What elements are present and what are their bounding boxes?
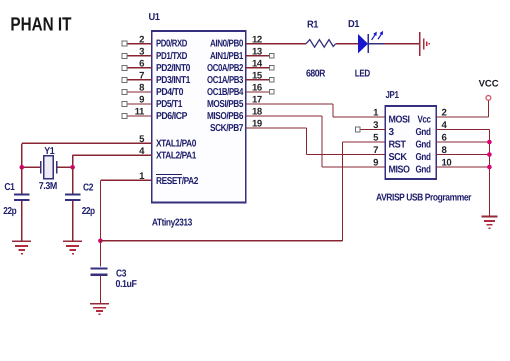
unconnected square pin 7 bbox=[122, 77, 127, 82]
wire R1 to D1 bbox=[336, 43, 358, 45]
wire C3 top lead bbox=[99, 241, 101, 267]
svg-text:6: 6 bbox=[139, 58, 144, 69]
wire pin 14 stub bbox=[246, 67, 269, 69]
wire D1 to ground bbox=[385, 43, 421, 45]
svg-text:0.1uF: 0.1uF bbox=[116, 279, 137, 290]
unconnected square pin 11 bbox=[122, 114, 127, 119]
svg-text:Gnd: Gnd bbox=[416, 140, 431, 151]
svg-text:JP1: JP1 bbox=[386, 90, 400, 101]
wire pin 3 stub bbox=[127, 55, 152, 57]
ground C1 bar 4 bbox=[21, 253, 23, 255]
wire ground rail vertical bbox=[488, 130, 490, 217]
wire XTAL1 vertical drop bbox=[21, 143, 23, 167]
svg-text:7: 7 bbox=[139, 71, 144, 82]
wire JP1 pin 8 bbox=[436, 154, 489, 156]
junction node pin 6 rail bbox=[487, 140, 492, 145]
svg-text:MISO/PB6: MISO/PB6 bbox=[207, 111, 244, 122]
unconnected square pin 14 bbox=[269, 65, 274, 70]
wire pin 17 vertical drop bbox=[332, 104, 334, 117]
ground C3 bar 1 bbox=[90, 303, 109, 305]
LED arrow 1 shaft bbox=[372, 33, 376, 40]
wire pin 15 stub bbox=[246, 79, 269, 81]
wire JP1 pin 2 to VCC bbox=[436, 116, 488, 118]
unconnected square pin 2 bbox=[122, 41, 127, 46]
wire pin 1 RESET horizontal bbox=[100, 179, 151, 181]
LED arrow 1 head bbox=[373, 32, 377, 36]
svg-text:22p: 22p bbox=[3, 206, 16, 217]
svg-text:C2: C2 bbox=[83, 183, 94, 194]
svg-text:OC1A/PB3: OC1A/PB3 bbox=[207, 75, 244, 86]
capacitor C1 plate bottom bbox=[14, 199, 29, 201]
VCC terminal circle bbox=[486, 96, 491, 101]
svg-text:Vcc: Vcc bbox=[418, 115, 432, 126]
svg-text:Gnd: Gnd bbox=[416, 152, 431, 163]
wire pin 12 to R1 bbox=[246, 43, 306, 45]
capacitor C2 plate bottom bbox=[65, 199, 81, 201]
svg-text:XTAL1/PA0: XTAL1/PA0 bbox=[156, 138, 197, 149]
svg-text:XTAL2/PA1: XTAL2/PA1 bbox=[156, 150, 197, 161]
capacitor C2 plate top bbox=[65, 193, 81, 195]
ground (LED, horizontal) bar 3 bbox=[426, 42, 428, 47]
unconnected square pin 9 bbox=[122, 101, 127, 106]
ground C1 bar 1 bbox=[12, 240, 31, 242]
svg-text:AIN1/PB1: AIN1/PB1 bbox=[210, 51, 244, 62]
svg-text:Gnd: Gnd bbox=[416, 127, 431, 138]
wire XTAL2 vertical drop bbox=[72, 155, 74, 167]
svg-text:22p: 22p bbox=[82, 206, 95, 217]
ground C3 bar 3 bbox=[96, 310, 103, 312]
svg-text:LED: LED bbox=[355, 68, 370, 79]
wire JP1 pin 9 bbox=[322, 166, 385, 168]
ground C2 bar 4 bbox=[72, 253, 74, 255]
svg-text:15: 15 bbox=[252, 71, 263, 82]
svg-text:2: 2 bbox=[139, 34, 144, 45]
svg-text:AIN0/PB0: AIN0/PB0 bbox=[210, 39, 244, 50]
LED D1 pin segment bbox=[368, 43, 384, 45]
svg-text:U1: U1 bbox=[149, 12, 161, 23]
capacitor C3 plate top bbox=[91, 268, 108, 270]
ground C1 bar 3 bbox=[18, 249, 25, 251]
wire pin 19 horizontal bbox=[246, 127, 307, 129]
svg-text:SCK: SCK bbox=[389, 152, 408, 163]
svg-text:PD3/INT1: PD3/INT1 bbox=[156, 75, 191, 86]
unconnected square pin 8 bbox=[122, 89, 127, 94]
svg-text:9: 9 bbox=[373, 158, 378, 169]
wire JP1 pin 6 bbox=[436, 141, 489, 143]
ground C1 bar 2 bbox=[15, 245, 28, 247]
wire pin 18 vertical drop bbox=[321, 116, 323, 167]
svg-text:ATtiny2313: ATtiny2313 bbox=[152, 218, 193, 229]
wire C1 top lead bbox=[21, 167, 23, 194]
ground (LED, horizontal) bar 2 bbox=[423, 38, 425, 49]
wire pin 13 stub bbox=[246, 55, 269, 57]
svg-text:3: 3 bbox=[373, 120, 378, 131]
svg-text:3: 3 bbox=[139, 46, 144, 57]
crystal Y1 left plate bbox=[40, 161, 42, 173]
ground C2 bar 1 bbox=[63, 240, 82, 242]
svg-text:AVRISP USB Programmer: AVRISP USB Programmer bbox=[376, 192, 472, 203]
wire JP1 pin 5 bbox=[343, 141, 386, 143]
svg-text:PD2/INT0: PD2/INT0 bbox=[156, 63, 191, 74]
unconnected square pin 16 bbox=[269, 89, 274, 94]
unconnected square pin 13 bbox=[269, 53, 274, 58]
svg-text:RST: RST bbox=[389, 140, 406, 151]
unconnected square pin 3 bbox=[122, 53, 127, 58]
svg-text:MOSI: MOSI bbox=[389, 115, 411, 126]
svg-text:OC0A/PB2: OC0A/PB2 bbox=[207, 63, 244, 74]
wire pin 4 XTAL2 horizontal bbox=[73, 154, 152, 156]
unconnected square pin 6 bbox=[122, 65, 127, 70]
wire pin 18 horizontal bbox=[246, 115, 322, 117]
wire JP1 pin 7 bbox=[307, 154, 386, 156]
junction node RESET/C3 bbox=[98, 239, 103, 244]
wire RESET vertical rise to JP1 bbox=[342, 142, 344, 241]
wire pin 9 stub bbox=[127, 103, 152, 105]
ground rail bar 3 bbox=[486, 224, 492, 226]
wire pin 2 stub bbox=[127, 43, 152, 45]
svg-text:7: 7 bbox=[373, 145, 378, 156]
wire pin 11 stub bbox=[127, 115, 152, 117]
svg-text:MISO: MISO bbox=[389, 165, 411, 176]
svg-text:11: 11 bbox=[135, 107, 145, 118]
svg-text:MOSI/PB5: MOSI/PB5 bbox=[207, 99, 244, 110]
connector JP1 body bbox=[385, 106, 436, 179]
RESET overline bbox=[156, 174, 182, 176]
svg-text:PD4/T0: PD4/T0 bbox=[156, 87, 184, 98]
capacitor C3 plate bottom bbox=[91, 274, 108, 276]
wire C2 bottom lead bbox=[72, 201, 74, 241]
ground C3 bar 2 bbox=[93, 307, 106, 309]
ground rail bar 4 bbox=[488, 227, 490, 229]
ground rail bar 2 bbox=[484, 220, 495, 222]
svg-text:VCC: VCC bbox=[479, 79, 499, 90]
wire pin 8 stub bbox=[127, 91, 152, 93]
svg-text:C1: C1 bbox=[4, 182, 15, 193]
svg-text:Gnd: Gnd bbox=[416, 165, 431, 176]
svg-text:PD1/TXD: PD1/TXD bbox=[156, 51, 187, 62]
ground C2 bar 2 bbox=[66, 245, 79, 247]
svg-text:PD0/RXD: PD0/RXD bbox=[156, 39, 187, 50]
svg-text:OC1B/PB4: OC1B/PB4 bbox=[207, 87, 244, 98]
wire pin 5 XTAL1 horizontal bbox=[22, 142, 152, 144]
svg-text:13: 13 bbox=[252, 46, 262, 57]
svg-text:680R: 680R bbox=[306, 68, 326, 79]
LED arrow 2 head bbox=[380, 31, 384, 35]
crystal Y1 right plate bbox=[56, 161, 58, 173]
svg-text:9: 9 bbox=[139, 95, 144, 106]
junction node pin 8 rail bbox=[487, 152, 492, 157]
svg-text:7.3M: 7.3M bbox=[39, 181, 57, 192]
crystal Y1 body bbox=[44, 156, 53, 179]
ground (LED, horizontal) bar 1 bbox=[419, 32, 421, 56]
wire pin 17 horizontal bbox=[246, 103, 333, 105]
capacitor C1 plate top bbox=[14, 193, 29, 195]
ground rail bar 1 bbox=[481, 216, 497, 218]
svg-text:PHAN IT: PHAN IT bbox=[10, 14, 71, 35]
wire JP1 pin 1 bbox=[333, 116, 385, 118]
ground (LED, horizontal) bar 4 bbox=[428, 43, 430, 45]
wire C1 bottom lead bbox=[21, 201, 23, 241]
junction node pin 10 rail bbox=[487, 165, 492, 170]
wire pin 7 stub bbox=[127, 79, 152, 81]
svg-text:PD5/T1: PD5/T1 bbox=[156, 99, 183, 110]
wire crystal left lead bbox=[22, 166, 41, 168]
wire RESET vertical drop bbox=[99, 180, 101, 241]
svg-text:D1: D1 bbox=[348, 19, 360, 30]
wire pin 6 stub bbox=[127, 67, 152, 69]
LED arrow 2 shaft bbox=[378, 33, 382, 40]
LED D1 triangle bbox=[359, 35, 368, 52]
wire pin 16 stub bbox=[246, 91, 269, 93]
svg-text:PD6/ICP: PD6/ICP bbox=[156, 111, 188, 122]
LED D1 cathode bar bbox=[367, 34, 369, 53]
wire JP1 pin 3 stub bbox=[360, 129, 385, 131]
wire JP1 pin 4 bbox=[436, 129, 489, 131]
unconnected square pin 15 bbox=[269, 77, 274, 82]
junction node XTAL2 bbox=[70, 165, 75, 170]
svg-text:16: 16 bbox=[252, 83, 262, 94]
svg-text:14: 14 bbox=[252, 58, 263, 69]
ground C2 bar 3 bbox=[69, 249, 76, 251]
svg-text:C3: C3 bbox=[116, 268, 127, 279]
wire pin 19 vertical drop bbox=[306, 128, 308, 154]
unconnected square JP1 pin 3 bbox=[355, 127, 360, 132]
wire RESET long horizontal run bbox=[100, 240, 342, 242]
wire VCC vertical bbox=[487, 101, 489, 117]
wire JP1 pin 10 bbox=[436, 166, 489, 168]
svg-text:RESET/PA2: RESET/PA2 bbox=[156, 176, 199, 187]
resistor R1 bbox=[306, 40, 336, 48]
ground C3 bar 4 bbox=[98, 313, 100, 315]
wire crystal right lead bbox=[57, 166, 72, 168]
svg-text:Y1: Y1 bbox=[44, 146, 55, 157]
wire C3 bottom lead bbox=[99, 276, 101, 303]
wire C2 top lead bbox=[72, 167, 74, 194]
IC U1 body bbox=[152, 31, 246, 203]
junction node XTAL1 bbox=[20, 165, 25, 170]
svg-text:R1: R1 bbox=[307, 20, 319, 31]
svg-text:SCK/PB7: SCK/PB7 bbox=[210, 123, 244, 134]
